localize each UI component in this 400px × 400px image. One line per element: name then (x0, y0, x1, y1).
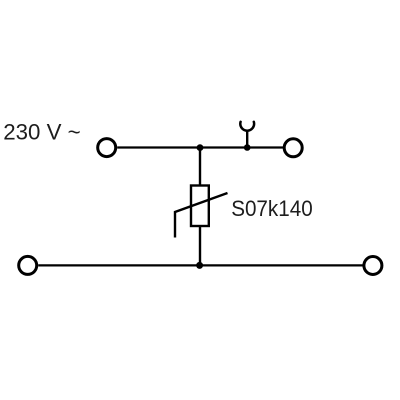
wire from varistor down to bottom bus (199, 226, 201, 265)
test socket cup symbol (240, 122, 254, 131)
svg-text:S07k140: S07k140 (231, 196, 313, 221)
varistor diagonal stroke with bent tail (175, 193, 228, 238)
terminal circle top-left (98, 139, 116, 157)
varistor RV1 body rectangle (191, 186, 209, 227)
terminal circle top-right (284, 139, 302, 157)
test socket stem wire (246, 130, 248, 148)
wire top horizontal (117, 146, 283, 148)
junction dot at varistor branch (bottom) (196, 262, 203, 269)
wire bottom horizontal (38, 264, 363, 266)
wire from top bus down to varistor (199, 148, 201, 187)
terminal circle bottom-left (19, 256, 37, 274)
terminal circle bottom-right (364, 257, 382, 275)
junction dot at test socket (244, 144, 251, 151)
junction dot at varistor branch (top) (197, 144, 204, 151)
svg-text:230 V ~: 230 V ~ (3, 120, 80, 145)
